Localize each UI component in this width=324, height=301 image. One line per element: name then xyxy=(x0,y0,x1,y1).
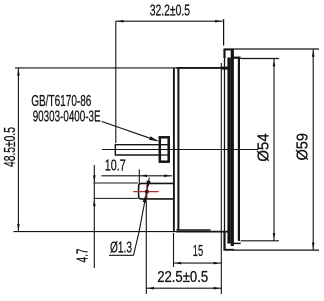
bezel bottom cap xyxy=(224,249,234,251)
svg-text:Ø59: Ø59 xyxy=(294,133,311,161)
leader diameter 1.3 upper arrow xyxy=(147,181,151,190)
nut facet lines xyxy=(159,145,170,155)
dim 4.7 lower arrow xyxy=(93,198,96,206)
long right extension line xyxy=(220,63,222,294)
stub red center mark horizontal xyxy=(133,191,159,193)
dim 32.2 left arrow xyxy=(116,20,124,23)
bezel top cap xyxy=(224,49,234,51)
svg-text:Ø1.3: Ø1.3 xyxy=(110,240,132,257)
dim 4.7 dimension line xyxy=(93,165,95,268)
dim 32.2 left extension line xyxy=(115,21,117,143)
dim 48.5 bottom arrow xyxy=(17,224,20,232)
dim 22.5 left arrow xyxy=(146,287,154,290)
dim 32.2 dimension line xyxy=(116,20,223,22)
dim 22.5 dimension line xyxy=(146,287,221,289)
svg-text:Ø54: Ø54 xyxy=(255,133,272,162)
case back disc edge line A xyxy=(173,68,175,232)
dim diameter54 bottom arrow xyxy=(273,233,276,241)
leader arrowhead xyxy=(149,136,158,141)
top lip tick at bezel xyxy=(221,67,228,70)
leader diameter 1.3 line xyxy=(134,178,150,256)
dim 48.5 bottom extension line xyxy=(14,231,177,233)
case bottom inner thin line C xyxy=(176,229,210,231)
dim 15 left extension line xyxy=(173,233,175,267)
dim diameter59 bottom extension line xyxy=(233,249,319,251)
back plate bar xyxy=(238,57,240,241)
dim 10.7 dimension line xyxy=(101,175,172,177)
centerline xyxy=(102,149,258,151)
svg-text:48.5±0.5: 48.5±0.5 xyxy=(2,127,19,167)
dim 4.7 bottom extension line xyxy=(94,197,139,199)
dim 48.5 top extension line xyxy=(15,67,176,69)
dim diameter59 bottom arrow xyxy=(312,242,315,250)
bezel front face line xyxy=(223,49,225,250)
svg-text:GB/T6170-86: GB/T6170-86 xyxy=(31,93,91,110)
step ring bottom edge xyxy=(234,242,241,244)
leader diameter 1.3 lower arrow xyxy=(143,194,147,203)
dim diameter59 dimension line xyxy=(312,49,314,250)
svg-text:10.7: 10.7 xyxy=(105,157,126,174)
stub connection xyxy=(139,183,174,199)
leader line to nut xyxy=(102,121,158,140)
stub red center dot xyxy=(145,190,149,194)
bezel inner thick bar right xyxy=(231,50,234,246)
dim 10.7 right arrow xyxy=(164,175,172,178)
svg-text:32.2±0.5: 32.2±0.5 xyxy=(150,2,190,19)
dim diameter59 top arrow xyxy=(312,49,315,57)
dim 4.7 top extension line xyxy=(94,182,139,184)
dim 10.7 left extension line xyxy=(138,170,140,184)
dim 32.2 right arrow xyxy=(215,20,223,23)
case body bottom edge D thick part xyxy=(176,231,229,233)
case body top edge thick part xyxy=(176,67,228,69)
dim 15 right arrow xyxy=(214,262,222,265)
screw shank xyxy=(115,144,158,156)
step ring top edge xyxy=(232,57,241,59)
stub red center mark vertical xyxy=(146,185,148,199)
svg-text:22.5±0.5: 22.5±0.5 xyxy=(157,269,208,286)
dim diameter54 top extension line xyxy=(241,58,279,60)
case back wall line B xyxy=(177,68,179,231)
dim diameter54 bottom extension line xyxy=(241,240,279,242)
dim 48.5 top arrow xyxy=(17,68,20,76)
bezel inner thick bar left xyxy=(227,58,230,244)
dim diameter54 dimension line xyxy=(273,59,275,241)
dim 48.5 dimension line xyxy=(17,68,19,232)
svg-text:4.7: 4.7 xyxy=(75,249,92,263)
dim 22.5 right arrow xyxy=(214,287,222,290)
svg-text:90303-0400-3E: 90303-0400-3E xyxy=(33,109,101,126)
diameter 1.3 text underline xyxy=(109,254,134,256)
dim diameter59 top extension line xyxy=(224,48,319,50)
dim diameter54 top arrow xyxy=(273,59,276,67)
dim 22.5 left extension line xyxy=(145,201,147,295)
dim 15 dimension line xyxy=(174,262,222,264)
svg-text:15: 15 xyxy=(193,243,203,260)
nut M4 outline xyxy=(160,137,169,161)
dim 4.7 upper arrow xyxy=(93,175,96,183)
dim 32.2 right extension line xyxy=(223,19,225,46)
dim 10.7 left arrow xyxy=(139,175,147,178)
dim 15 left arrow xyxy=(174,262,182,265)
